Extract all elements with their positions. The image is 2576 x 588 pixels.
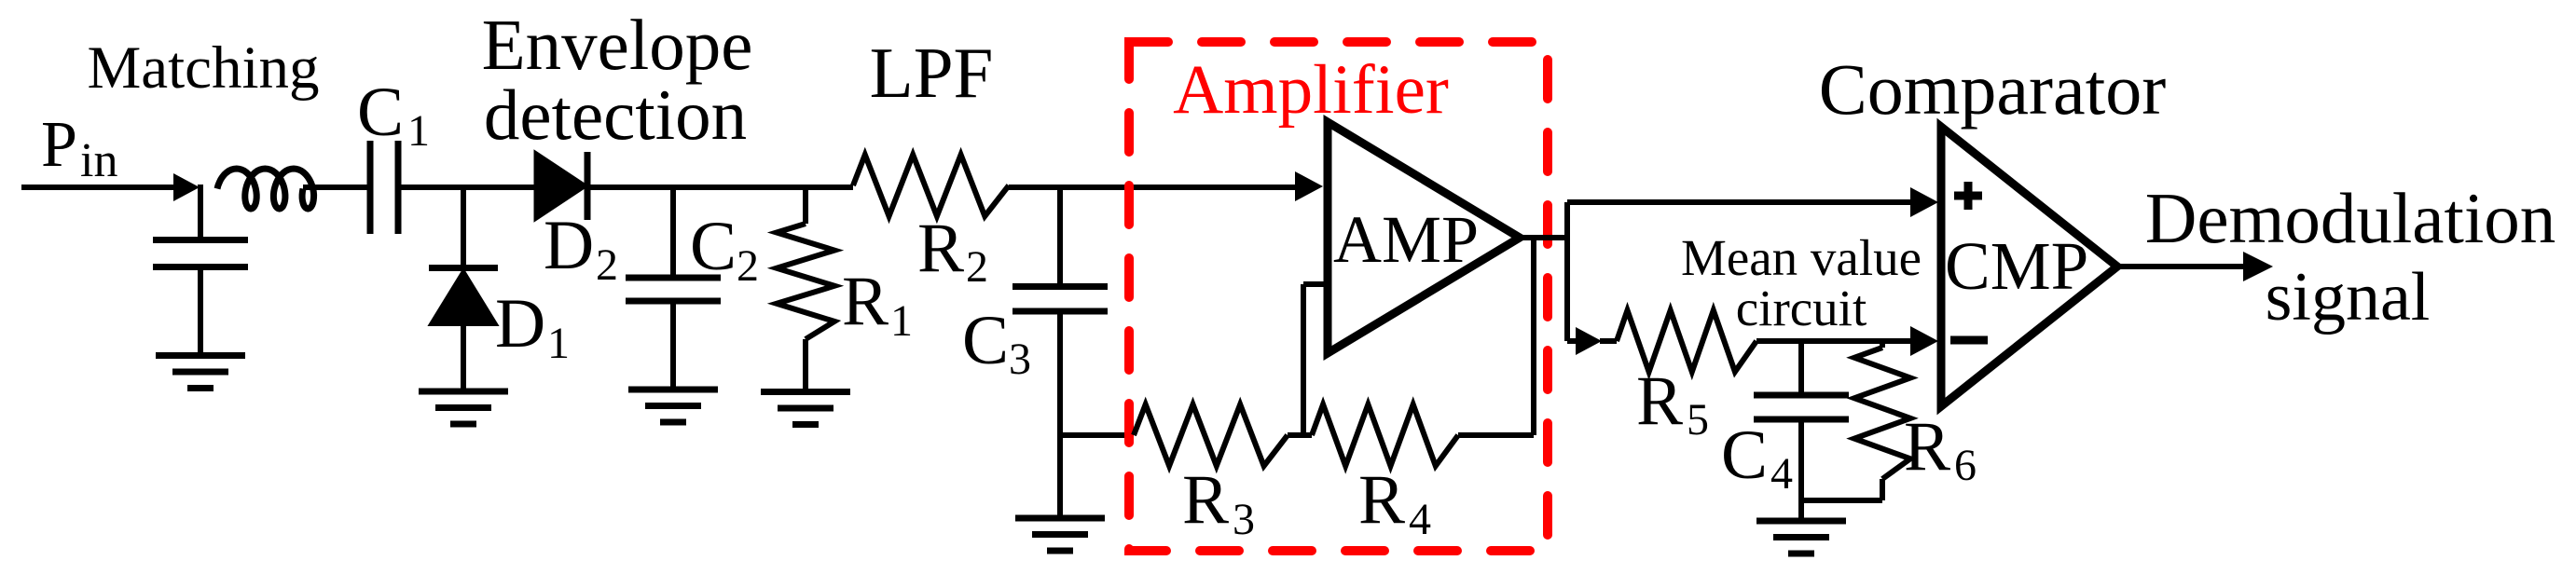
svg-text:Matching: Matching [87,34,319,102]
svg-text:2: 2 [737,241,759,291]
ground mean value circuit ground [1756,518,1846,525]
svg-text:signal: signal [2266,259,2431,335]
arrow mean value branch [1576,327,1602,355]
minus sign CMP inverting [1950,336,1988,345]
plus sign CMP noninverting [1954,192,1982,200]
svg-text:R: R [1358,461,1405,539]
node C2 junction [670,185,676,275]
wire R4 to feedback vertical [1458,432,1534,438]
wire to CMP plus input [1567,199,1913,205]
svg-text:C: C [357,74,404,151]
ground C3 ground [1015,515,1105,522]
resistor R6 [1854,348,1910,479]
svg-text:CMP: CMP [1945,228,2088,304]
wire feedback vertical up to output [1531,238,1536,435]
arrow input signal arrow [173,173,200,201]
resistor R3 [1134,404,1288,466]
svg-text:C: C [1721,417,1768,494]
capacitor C3 [1012,283,1108,290]
wire AMP output to junction [1518,235,1567,240]
svg-text:Amplifier: Amplifier [1173,51,1449,129]
arrow into CMP plus [1910,187,1938,217]
wire D2 to R2 [587,185,853,190]
wire AMP inverting input stub [1303,281,1328,287]
diode D2 [535,152,586,220]
svg-text:2: 2 [596,240,618,290]
wire C1 to D2 [398,185,537,190]
ground D1 ground [419,389,508,395]
wire CMP output [2117,264,2247,269]
svg-text:Envelope: Envelope [482,5,753,85]
node R1 junction [803,185,808,224]
svg-text:1: 1 [407,106,430,156]
svg-text:3: 3 [1009,335,1031,384]
wire matching cap to ground [198,267,203,356]
node output junction vertical [1564,202,1570,341]
resistor R2 [853,155,1009,216]
wire R5 to CMP minus input [1756,338,1913,344]
svg-text:detection: detection [484,75,747,155]
wire C3 to feedback node [1057,311,1063,435]
wire R3 to R4 junction [1288,432,1312,438]
ground C2 ground [628,387,718,393]
svg-text:Demodulation: Demodulation [2145,178,2556,258]
node matching node junction [198,185,203,239]
amplifier dashed box [1129,42,1548,551]
wire C3 to ground [1057,435,1063,517]
svg-text:D: D [495,285,545,362]
resistor R1 [777,224,834,339]
svg-text:Comparator: Comparator [1819,48,2167,130]
wire down branch to R5 [1567,338,1577,344]
svg-text:AMP: AMP [1333,202,1479,277]
inductor matching inductor [217,169,314,209]
svg-text:4: 4 [1770,449,1793,499]
svg-text:6: 6 [1954,441,1977,490]
ground matching cap ground [156,352,245,359]
wire R6 bottom to C4 node [1880,479,1885,500]
op-amp U1 AMP triangle [1328,122,1520,353]
svg-text:C: C [962,302,1009,379]
node C4 junction [1798,341,1804,392]
svg-text:1: 1 [547,319,570,368]
capacitor C1 [367,141,374,234]
svg-text:R: R [842,263,889,340]
capacitor matching shunt cap [153,237,248,243]
svg-text:LPF: LPF [870,33,994,113]
svg-text:D: D [544,207,594,284]
node D1 junction [461,185,466,267]
arrow demodulation output [2243,252,2273,281]
capacitor C4 [1754,392,1849,399]
node C3 junction [1057,185,1063,286]
wire R1 to ground [803,339,808,391]
ground R1 ground [761,389,850,395]
wire C4 to bottom node [1798,419,1804,518]
wire D1 to ground [461,324,466,390]
svg-text:R: R [917,210,964,287]
svg-text:P: P [41,109,77,181]
svg-text:R: R [1636,362,1683,440]
svg-text:3: 3 [1233,495,1255,544]
wire inductor to C1 [303,185,367,190]
node R6 junction [1880,341,1885,348]
svg-text:in: in [80,134,117,187]
svg-text:circuit: circuit [1736,280,1867,336]
wire inverting input down to feedback [1301,284,1306,438]
resistor R5 [1617,310,1756,372]
svg-text:2: 2 [966,242,988,292]
wire R2 to AMP input [1009,185,1295,190]
svg-text:1: 1 [890,296,913,346]
wire C2 to ground [670,301,676,390]
wire arrow to R5 [1600,338,1617,344]
svg-text:C: C [690,208,737,285]
svg-text:R: R [1182,461,1229,539]
capacitor C2 [626,275,721,281]
svg-text:R: R [1904,408,1950,485]
svg-text:5: 5 [1687,395,1709,444]
svg-text:4: 4 [1409,495,1431,544]
svg-text:Mean value: Mean value [1681,229,1922,286]
wire input wire Pin [21,185,177,190]
arrow into CMP minus [1910,326,1938,356]
arrow into AMP [1295,171,1323,201]
wire C3 node to R3 [1057,432,1134,438]
diode D1 [429,265,498,271]
resistor R4 [1312,404,1458,466]
comparator U2 CMP triangle [1941,127,2117,406]
